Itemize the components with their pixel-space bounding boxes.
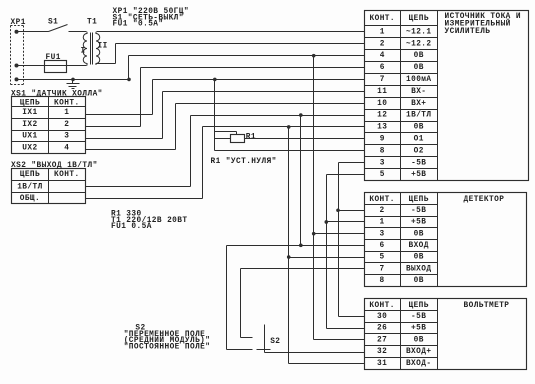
svg-text:26: 26 (377, 325, 387, 333)
label: ДЕТЕКТОР (464, 196, 505, 204)
svg-text:Т1: Т1 (87, 18, 97, 26)
wire net ~12.1: T1 secondary top to pin 1 (97, 31, 365, 33)
svg-text:ВХОД-: ВХОД- (406, 360, 432, 368)
svg-text:УСИЛИТЕЛЬ: УСИЛИТЕЛЬ (445, 28, 491, 36)
svg-text:S1: S1 (48, 18, 58, 26)
svg-text:ЦЕПЬ: ЦЕПЬ (409, 15, 429, 23)
wire: XP1 pin1 to switch S1 (17, 31, 49, 33)
junction: -5В to detector pin 2 (336, 208, 340, 212)
svg-text:0В: 0В (414, 336, 424, 344)
svg-text:0В: 0В (414, 230, 424, 238)
wire: S1 to transformer T1 primary (69, 31, 87, 33)
svg-text:ВОЛЬТМЕТР: ВОЛЬТМЕТР (464, 302, 510, 310)
svg-text:ОБЩ.: ОБЩ. (20, 195, 40, 203)
svg-text:+5В: +5В (411, 219, 426, 227)
svg-text:UX1: UX1 (22, 133, 37, 141)
wire net -5В: pin 3 stub and riser (339, 163, 365, 317)
label: ИСТОЧНИК ТОКА И (445, 13, 521, 21)
wire: 0В riser to voltmeter pin 31 (ВХОД-) (289, 258, 365, 364)
svg-text:0В: 0В (414, 277, 424, 285)
svg-text:IX1: IX1 (22, 109, 37, 117)
wire: R1 left terminal to pin 8 (О2) (215, 139, 365, 151)
connector table: current source and measuring amplifier (ИСТОЧНИК ТОКА И ИЗМЕРИТЕЛЬНЫЙ УСИЛИТЕЛЬ) (365, 11, 529, 181)
svg-text:ЦЕПЬ: ЦЕПЬ (20, 99, 40, 107)
wire net 0В riser to voltmeter pin 27 (314, 56, 365, 340)
svg-text:ЦЕПЬ: ЦЕПЬ (20, 171, 40, 179)
svg-text:О2: О2 (414, 147, 424, 155)
wire: R1 wiper riser (215, 80, 237, 151)
svg-text:R1: R1 (246, 134, 256, 142)
junction: 0В at detector pin 5 (287, 255, 291, 259)
svg-text:6: 6 (380, 242, 385, 250)
junction: 0В to detector pin 3 (312, 232, 316, 236)
svg-text:XP1: XP1 (11, 19, 26, 27)
svg-text:"ПОСТОЯННОЕ ПОЛЕ": "ПОСТОЯННОЕ ПОЛЕ" (124, 343, 211, 351)
label: ИЗМЕРИТЕЛЬНЫЙ (445, 20, 511, 29)
svg-text:1В/ТЛ: 1В/ТЛ (17, 183, 43, 191)
note: XP1 "220В 50ГЦ" (113, 8, 189, 16)
svg-text:5: 5 (380, 171, 385, 179)
svg-text:5: 5 (380, 254, 385, 262)
svg-text:32: 32 (377, 348, 387, 356)
svg-text:IX2: IX2 (22, 121, 37, 129)
svg-text:ВХ-: ВХ- (411, 88, 426, 96)
svg-text:2: 2 (380, 207, 385, 215)
svg-text:КОНТ.: КОНТ. (370, 15, 396, 23)
svg-text:27: 27 (377, 336, 387, 344)
svg-text:ВЫХОД: ВЫХОД (406, 265, 432, 273)
wire: 1В/ТЛ riser to ВХОД line (300, 116, 302, 246)
wire net +5В: pin 5 stub and riser (327, 175, 365, 329)
svg-text:~12.1: ~12.1 (406, 28, 432, 36)
wire net 0В (earth bus): XP1 pin3 to riser (17, 79, 129, 81)
svg-text:ВХОД: ВХОД (408, 242, 428, 250)
junction: earth tap (71, 78, 75, 82)
junction: 0В branch down to detector (287, 125, 291, 129)
XP1 pin 3 (15, 77, 19, 81)
wire: 0В riser to detector pin 5 (288, 127, 290, 258)
svg-text:S2: S2 (270, 338, 280, 346)
svg-text:FU1: FU1 (46, 54, 61, 62)
label: Т1 (87, 18, 97, 26)
svg-text:1: 1 (64, 109, 69, 117)
svg-text:ЦЕПЬ: ЦЕПЬ (408, 302, 428, 310)
svg-text:3: 3 (380, 230, 385, 238)
junction: 1В/ТЛ branch to detector input (299, 113, 303, 117)
svg-text:31: 31 (377, 360, 387, 368)
svg-text:-5В: -5В (411, 207, 426, 215)
connector table: voltmeter (ВОЛЬТМЕТР) (365, 299, 527, 370)
svg-text:1В/ТЛ: 1В/ТЛ (406, 112, 432, 120)
note: Т1 220/12В 20ВТ (111, 217, 187, 225)
label: УСИЛИТЕЛЬ (445, 28, 491, 36)
fuse FU1 body (45, 61, 67, 73)
wire: S2 common to voltmeter pin 32 (ВХОД+) (265, 352, 365, 354)
resistor R1 body (potentiometer УСТ.НУЛЯ) (231, 135, 245, 143)
svg-text:II: II (98, 43, 108, 51)
junction: 0В tap on pin 4 line (312, 54, 316, 58)
svg-text:8: 8 (380, 147, 385, 155)
svg-text:-5В: -5В (411, 313, 426, 321)
svg-text:4: 4 (380, 52, 385, 60)
svg-text:10: 10 (377, 100, 387, 108)
transformer T1 core (91, 33, 93, 65)
connector XP1 (dashed mains plug outline) (11, 26, 24, 85)
svg-text:100мА: 100мА (406, 76, 432, 84)
wire net 1В/ТЛ: XS2 row1 to pin 12 (86, 116, 365, 187)
label: R1 "УСТ.НУЛЯ" (211, 158, 277, 166)
svg-text:ВХОД+: ВХОД+ (406, 348, 432, 356)
label: winding II (98, 43, 108, 51)
label: R1 (246, 134, 256, 142)
svg-text:0В: 0В (414, 124, 424, 132)
wire: ВХОД net down to S2 contact (ПОСТОЯННОЕ ПОЛЕ) (227, 246, 253, 350)
svg-text:3: 3 (64, 133, 69, 141)
note: FU1 "0.5А" (113, 21, 164, 29)
switch S2 lever (264, 325, 266, 353)
svg-text:~12.2: ~12.2 (406, 40, 432, 48)
svg-text:UX2: UX2 (22, 144, 37, 152)
svg-text:FU1 "0.5А": FU1 "0.5А" (113, 21, 164, 29)
note: (СРЕДНИЙ МОДУЛЬ)" (124, 336, 211, 345)
ground symbol on mains earth wire (67, 80, 80, 89)
svg-text:1: 1 (380, 219, 385, 227)
wire: -5В stub to detector pin 2 (339, 210, 365, 212)
note: S2 (135, 325, 145, 333)
svg-text:7: 7 (380, 76, 385, 84)
wire net 0В riser to pin 4 (129, 56, 365, 80)
wire net UX2 to pin 10 (ВХ+) (86, 104, 365, 150)
svg-text:FU1 0.5А: FU1 0.5А (111, 223, 152, 231)
wire: R1 right terminal to pin 9 (О1) (245, 138, 365, 140)
wire net IX1 to pin 7 (100мА) (86, 80, 365, 115)
wire: +5В stub to detector pin 1 (327, 221, 365, 223)
transformer T1 secondary winding II (96, 32, 100, 65)
svg-text:XS2 "ВЫХОД 1В/ТЛ": XS2 "ВЫХОД 1В/ТЛ" (11, 162, 98, 170)
switch S1 lever (49, 25, 68, 32)
wire: 0В stub to detector pin 5 (289, 257, 365, 259)
svg-text:КОНТ.: КОНТ. (369, 302, 395, 310)
svg-text:6: 6 (380, 64, 385, 72)
svg-text:О1: О1 (414, 135, 424, 143)
wire net 0В: XS2 ОБЩ to pin 13 (86, 127, 365, 199)
svg-text:12: 12 (377, 112, 387, 120)
XP1 pin 1 (15, 30, 19, 34)
label: S1 (48, 18, 58, 26)
transformer T1 primary winding I (83, 32, 87, 66)
svg-text:30: 30 (377, 313, 387, 321)
note: "ПОСТОЯННОЕ ПОЛЕ" (124, 343, 211, 351)
svg-text:3: 3 (380, 159, 385, 167)
connector table: detector (ДЕТЕКТОР) (365, 193, 527, 287)
svg-text:8: 8 (380, 277, 385, 285)
note: S1 "СЕТЬ-ВЫКЛ" (113, 14, 184, 22)
svg-text:0В: 0В (414, 52, 424, 60)
svg-text:КОНТ.: КОНТ. (54, 99, 80, 107)
wire net ВХОД: detector pin 6 line (227, 245, 365, 247)
label: FU1 (46, 54, 61, 62)
svg-text:ДЕТЕКТОР: ДЕТЕКТОР (464, 196, 505, 204)
svg-text:4: 4 (64, 144, 69, 152)
wire net UX1 to pin 11 (ВХ-) (86, 92, 365, 139)
svg-text:+5В: +5В (411, 325, 426, 333)
svg-text:ЦЕПЬ: ЦЕПЬ (408, 196, 428, 204)
svg-text:11: 11 (377, 88, 387, 96)
label: winding I (81, 48, 86, 56)
svg-text:ВХ+: ВХ+ (411, 100, 426, 108)
junction: +5В to detector pin 1 (325, 220, 329, 224)
svg-text:1: 1 (380, 28, 385, 36)
note: R1 330 (111, 211, 142, 219)
wire: XP1 pin2 through fuse FU1 to T1 primary bottom (17, 65, 87, 67)
svg-text:-5В: -5В (411, 159, 426, 167)
wire net ВЫХОД: detector pin 7 to S2 contact (ПЕРЕМЕННОЕ ПОЛЕ) (241, 269, 365, 338)
connector XS1 table (ДАТЧИК ХОЛЛА) (12, 97, 86, 154)
svg-text:I: I (81, 48, 86, 56)
svg-text:0В: 0В (414, 254, 424, 262)
label: XS1 "ДАТЧИК ХОЛЛА" (11, 91, 103, 99)
junction: earth bus to 0В riser (127, 78, 131, 82)
label: S2 (at switch) (270, 338, 280, 346)
wire net IX2 to pin 6 (0В) (86, 68, 365, 127)
label: XS2 "ВЫХОД 1В/ТЛ" (11, 162, 98, 170)
XP1 pin 2 (15, 64, 19, 68)
junction: riser meets ВХОД line (299, 244, 303, 248)
svg-text:КОНТ.: КОНТ. (54, 171, 80, 179)
note: "ПЕРЕМЕННОЕ ПОЛЕ (124, 331, 206, 339)
svg-text:7: 7 (380, 265, 385, 273)
svg-text:КОНТ.: КОНТ. (369, 196, 395, 204)
svg-text:2: 2 (380, 40, 385, 48)
svg-text:R1 "УСТ.НУЛЯ": R1 "УСТ.НУЛЯ" (211, 158, 277, 166)
svg-text:9: 9 (380, 135, 385, 143)
svg-text:2: 2 (64, 121, 69, 129)
junction: R1 wiper tap on 100мА line (213, 78, 217, 82)
svg-text:+5В: +5В (411, 171, 426, 179)
label: ВОЛЬТМЕТР (464, 302, 510, 310)
svg-text:13: 13 (377, 124, 387, 132)
wire net ~12.2: T1 secondary bottom to pin 2 (97, 44, 365, 64)
note: FU1 0.5А (111, 223, 152, 231)
switch S2 movable contact bar (257, 349, 271, 351)
wire: 0В stub to detector pin 3 (314, 233, 365, 235)
connector XS2 table (ВЫХОД 1В/ТЛ) (12, 169, 86, 204)
svg-text:0В: 0В (414, 64, 424, 72)
svg-text:XS1 "ДАТЧИК ХОЛЛА": XS1 "ДАТЧИК ХОЛЛА" (11, 91, 103, 99)
label: XP1 (11, 19, 26, 27)
